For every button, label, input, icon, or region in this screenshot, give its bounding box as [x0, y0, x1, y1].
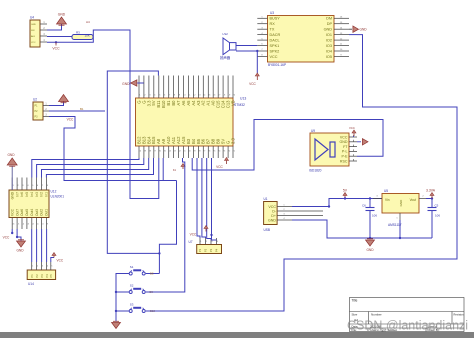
wire U12 VCC below — [11, 229, 13, 233]
U9 right pins — [349, 136, 357, 138]
connector U14 — [27, 270, 55, 280]
svg-text:Out3: Out3 — [35, 209, 39, 216]
svg-text:CSDN @lantiandianzi: CSDN @lantiandianzi — [347, 319, 468, 333]
svg-text:VCC: VCC — [270, 55, 278, 59]
ground below U12 — [17, 241, 26, 247]
svg-text:In4: In4 — [30, 192, 34, 197]
svg-text:DM: DM — [326, 17, 332, 21]
svg-text:C5: C5 — [435, 204, 439, 208]
junction S3 — [115, 310, 117, 312]
wire S1 net: MCU top pin to S1 — [107, 71, 159, 253]
svg-text:U9: U9 — [311, 129, 315, 133]
U12 top pins — [11, 178, 13, 191]
3.3VA arrow — [431, 194, 433, 199]
U3 left pins — [257, 17, 267, 19]
svg-text:GND: GND — [340, 140, 348, 144]
svg-text:U13: U13 — [240, 97, 246, 101]
svg-text:K1: K1 — [173, 168, 177, 172]
svg-text:DACR: DACR — [270, 33, 281, 37]
svg-text:扬声器: 扬声器 — [220, 55, 231, 60]
svg-text:In1: In1 — [45, 192, 49, 197]
svg-text:VCC: VCC — [3, 236, 10, 240]
svg-text:VCC: VCC — [31, 42, 36, 44]
svg-text:P1: P1 — [198, 248, 202, 252]
ground power rail — [366, 240, 375, 246]
svg-text:BUSY: BUSY — [270, 17, 281, 21]
svg-text:GND: GND — [360, 28, 368, 32]
speaker LS2 — [230, 43, 237, 50]
svg-text:VCC: VCC — [268, 205, 276, 209]
pin Vout stub — [419, 198, 426, 200]
svg-text:VB: VB — [230, 100, 235, 106]
svg-text:U5: U5 — [384, 189, 388, 193]
svg-text:STM32: STM32 — [234, 103, 245, 107]
svg-text:VCC: VCC — [249, 82, 256, 86]
svg-text:VCC: VCC — [349, 126, 355, 130]
wire ULN input 3 — [42, 158, 149, 178]
svg-text:ULN2001: ULN2001 — [51, 195, 65, 199]
ground right of U3 — [353, 26, 359, 32]
wire LS2 to U3 SPK2 — [236, 50, 257, 52]
connector U4 — [30, 20, 40, 47]
svg-text:Out1: Out1 — [45, 209, 49, 216]
svg-text:106: 106 — [372, 214, 377, 218]
svg-text:B6: B6 — [210, 233, 214, 237]
VCC stub — [55, 42, 57, 45]
svg-text:Out4: Out4 — [30, 209, 34, 216]
svg-text:U4: U4 — [30, 16, 34, 20]
svg-text:VCC: VCC — [216, 165, 223, 169]
wire ULN input 2 — [37, 158, 144, 178]
ground left of MCU top — [131, 80, 137, 86]
svg-text:DACL: DACL — [270, 39, 280, 43]
svg-text:D+: D+ — [271, 214, 276, 218]
svg-text:Out6: Out6 — [20, 209, 24, 216]
wire to MCU top pin — [137, 82, 144, 84]
U1 pins — [277, 206, 292, 208]
capacitor C6 — [369, 199, 371, 208]
switch S1 — [129, 272, 132, 275]
svg-text:P4: P4 — [45, 274, 49, 278]
IC U9 ISD1820 — [310, 133, 349, 166]
wire U2 pin1 to VCC — [49, 102, 64, 106]
svg-text:TX: TX — [270, 28, 275, 32]
svg-text:Number: Number — [371, 313, 382, 317]
svg-text:Title: Title — [352, 299, 358, 303]
svg-text:A4: A4 — [86, 20, 90, 24]
svg-text:In3: In3 — [35, 192, 39, 197]
wire D- stub — [292, 210, 323, 212]
svg-text:DP: DP — [327, 22, 333, 26]
junction USB VCC — [328, 205, 330, 207]
svg-text:GND: GND — [122, 82, 130, 86]
wire ULN input 1 — [32, 158, 139, 178]
svg-text:IO5: IO5 — [326, 55, 332, 59]
wire U14 VCC — [51, 258, 54, 263]
svg-text:USB: USB — [264, 228, 271, 232]
junction U3 SPK2 — [256, 50, 258, 52]
svg-text:C6: C6 — [362, 204, 366, 208]
svg-text:Vin: Vin — [385, 198, 390, 202]
wire USB VCC to regulator input — [292, 199, 382, 207]
svg-text:S2: S2 — [130, 284, 134, 288]
svg-text:B1: B1 — [80, 107, 84, 111]
VCC at MCU bottom — [226, 159, 228, 164]
svg-text:U2: U2 — [33, 98, 37, 102]
svg-text:U7: U7 — [189, 240, 193, 244]
connector U2 — [33, 102, 43, 120]
svg-text:IO1: IO1 — [326, 33, 332, 37]
svg-text:GND: GND — [366, 248, 374, 252]
svg-text:Vout: Vout — [410, 198, 416, 202]
MCU U13 STM32 — [136, 98, 234, 146]
svg-text:In2: In2 — [40, 192, 44, 197]
svg-text:BY8001-16P: BY8001-16P — [268, 63, 286, 67]
wire down to S1 — [159, 181, 176, 274]
svg-text:U1: U1 — [264, 197, 268, 201]
IC U12 ULN2001 — [9, 190, 49, 218]
svg-text:P1: P1 — [30, 274, 34, 278]
junction at VCC — [55, 41, 57, 43]
svg-text:Revision: Revision — [454, 313, 465, 317]
svg-text:GND: GND — [10, 191, 14, 199]
svg-text:Out7: Out7 — [15, 209, 19, 216]
wire USB GND to ground rail — [292, 220, 432, 238]
svg-text:Size: Size — [352, 313, 358, 317]
wire U3 VCC pin down — [256, 51, 258, 73]
MCU bottom pins — [138, 146, 140, 158]
svg-text:P-E: P-E — [342, 155, 349, 159]
VCC arrow below U3 — [256, 75, 258, 81]
pin Vin stub — [373, 198, 382, 200]
wire gnd to U12 pin1 — [11, 167, 13, 191]
svg-text:106: 106 — [435, 214, 440, 218]
svg-text:R3: R3 — [76, 31, 80, 35]
ground above U4 — [57, 17, 67, 24]
wire D+ stub — [292, 215, 323, 217]
svg-text:3.3VA: 3.3VA — [426, 189, 436, 193]
svg-text:U12: U12 — [51, 190, 57, 194]
MCU top pins — [138, 76, 140, 99]
svg-text:IO4: IO4 — [326, 49, 332, 53]
wire U2 pin3 to MCU — [49, 117, 177, 181]
svg-text:GND: GND — [7, 153, 15, 157]
wire U4 pin1 to GND — [47, 24, 62, 30]
svg-text:VCC: VCC — [190, 233, 197, 237]
wire S2 net to MCU — [146, 158, 185, 292]
svg-text:RSC: RSC — [340, 159, 348, 163]
wire MCU to U9 P-E loop — [192, 120, 383, 171]
junction rail AMS — [399, 237, 401, 239]
wire U3 pin13 — [349, 34, 357, 36]
wire S3 net long loop to U3 — [146, 35, 457, 311]
svg-text:P-L: P-L — [342, 150, 348, 154]
wire ULN input 4 — [46, 158, 153, 178]
U12 bottom pins — [11, 218, 13, 230]
junction C6 top — [369, 197, 371, 199]
capacitor C5 — [431, 199, 433, 208]
5V power label — [344, 194, 346, 199]
svg-text:10K: 10K — [85, 33, 90, 37]
svg-text:ISD1820: ISD1820 — [309, 169, 322, 173]
svg-text:5V: 5V — [343, 189, 348, 193]
ground above U12 — [7, 158, 17, 165]
ground right of U9 — [362, 139, 368, 145]
svg-text:P5: P5 — [49, 274, 53, 278]
wire U12 pin2 below to GND — [17, 229, 21, 241]
wires MCU to U7 — [197, 158, 200, 238]
wire jog to MCU pin6 — [162, 158, 164, 181]
wire U2 pin2 — [49, 110, 105, 112]
switch S3 — [129, 310, 132, 313]
wire S1 right lead — [146, 273, 160, 275]
switch S2 — [129, 291, 132, 294]
wire U4 pin3 to R1 left — [47, 36, 72, 38]
U7 top pins — [199, 238, 201, 245]
connector U1 USB — [264, 202, 278, 225]
resistor R3 10K — [72, 35, 93, 40]
svg-text:In7: In7 — [15, 192, 19, 197]
svg-text:3.3: 3.3 — [230, 138, 235, 144]
svg-text:Out2: Out2 — [40, 209, 44, 216]
svg-text:GND: GND — [399, 199, 403, 207]
svg-text:U3: U3 — [270, 11, 274, 15]
U3 right pins — [334, 17, 349, 19]
svg-text:Out5: Out5 — [25, 209, 29, 216]
svg-text:B8: B8 — [150, 272, 154, 276]
bottom gray bar — [0, 332, 474, 338]
VCC arrow above U9 — [353, 132, 355, 137]
wire S2 left — [116, 291, 129, 293]
svg-text:P3: P3 — [209, 248, 213, 252]
wire U9 GND — [357, 141, 361, 143]
svg-text:U14: U14 — [28, 282, 34, 286]
svg-text:VCC: VCC — [340, 135, 348, 139]
U14 top pins — [31, 262, 33, 270]
svg-text:RX: RX — [270, 22, 276, 26]
junction below U12 2 — [16, 236, 18, 238]
svg-text:IO3: IO3 — [326, 44, 332, 48]
svg-text:VCC: VCC — [52, 47, 60, 51]
small power arrow near MCU bottom — [182, 165, 184, 169]
wires U12 outputs to U14 — [31, 229, 33, 262]
svg-text:P2: P2 — [204, 248, 208, 252]
svg-text:VCC: VCC — [57, 259, 64, 263]
pin GND stub — [399, 213, 401, 220]
wire S3 left — [116, 310, 129, 312]
junction S1 feed — [158, 252, 160, 254]
svg-text:P3: P3 — [40, 274, 44, 278]
svg-text:In5: In5 — [25, 192, 29, 197]
svg-text:VCC: VCC — [10, 208, 14, 216]
title block — [350, 298, 465, 332]
svg-text:SPK2: SPK2 — [270, 49, 280, 53]
ground below switches — [112, 323, 121, 329]
wire Vout to 3.3V — [426, 198, 432, 200]
svg-text:P2: P2 — [35, 274, 39, 278]
svg-text:P4: P4 — [215, 248, 219, 252]
svg-text:LS2: LS2 — [223, 32, 229, 36]
IC U3 BY8001-16P — [268, 16, 335, 63]
VCC symbol above U2 — [59, 95, 69, 102]
svg-text:GND: GND — [31, 24, 36, 26]
speaker glyph inside U9 — [330, 142, 335, 157]
junction 3.3V — [431, 197, 433, 199]
svg-text:VCC: VCC — [67, 118, 74, 122]
svg-text:S1: S1 — [130, 265, 134, 269]
svg-text:IO2: IO2 — [326, 39, 332, 43]
wire AMS GND down — [399, 220, 401, 238]
wire U4 pin4 / VCC net — [47, 37, 93, 42]
wire net A4 from R3 to MCU pin — [93, 30, 159, 199]
VCC arrow U14 — [53, 254, 55, 258]
svg-text:S3: S3 — [130, 303, 134, 307]
junction S2 — [115, 291, 117, 293]
svg-text:In6: In6 — [20, 192, 24, 197]
svg-text:GND: GND — [58, 13, 66, 17]
svg-text:GND: GND — [16, 249, 24, 253]
svg-text:SPK1: SPK1 — [270, 44, 280, 48]
svg-text:GND: GND — [268, 218, 276, 222]
wire switches common to ground — [116, 274, 129, 322]
regulator U5 AMS1117 — [382, 194, 419, 214]
wire LS2 to U3 SPK1 — [236, 45, 257, 47]
wire U9 VCC up — [353, 136, 355, 137]
junction rail C6 — [369, 237, 371, 239]
connector U7 — [197, 245, 222, 254]
junction below U12 — [11, 232, 13, 234]
svg-text:ADJ: ADJ — [31, 35, 35, 38]
VCC arrow U7 — [205, 227, 207, 232]
svg-text:GND: GND — [324, 28, 333, 32]
